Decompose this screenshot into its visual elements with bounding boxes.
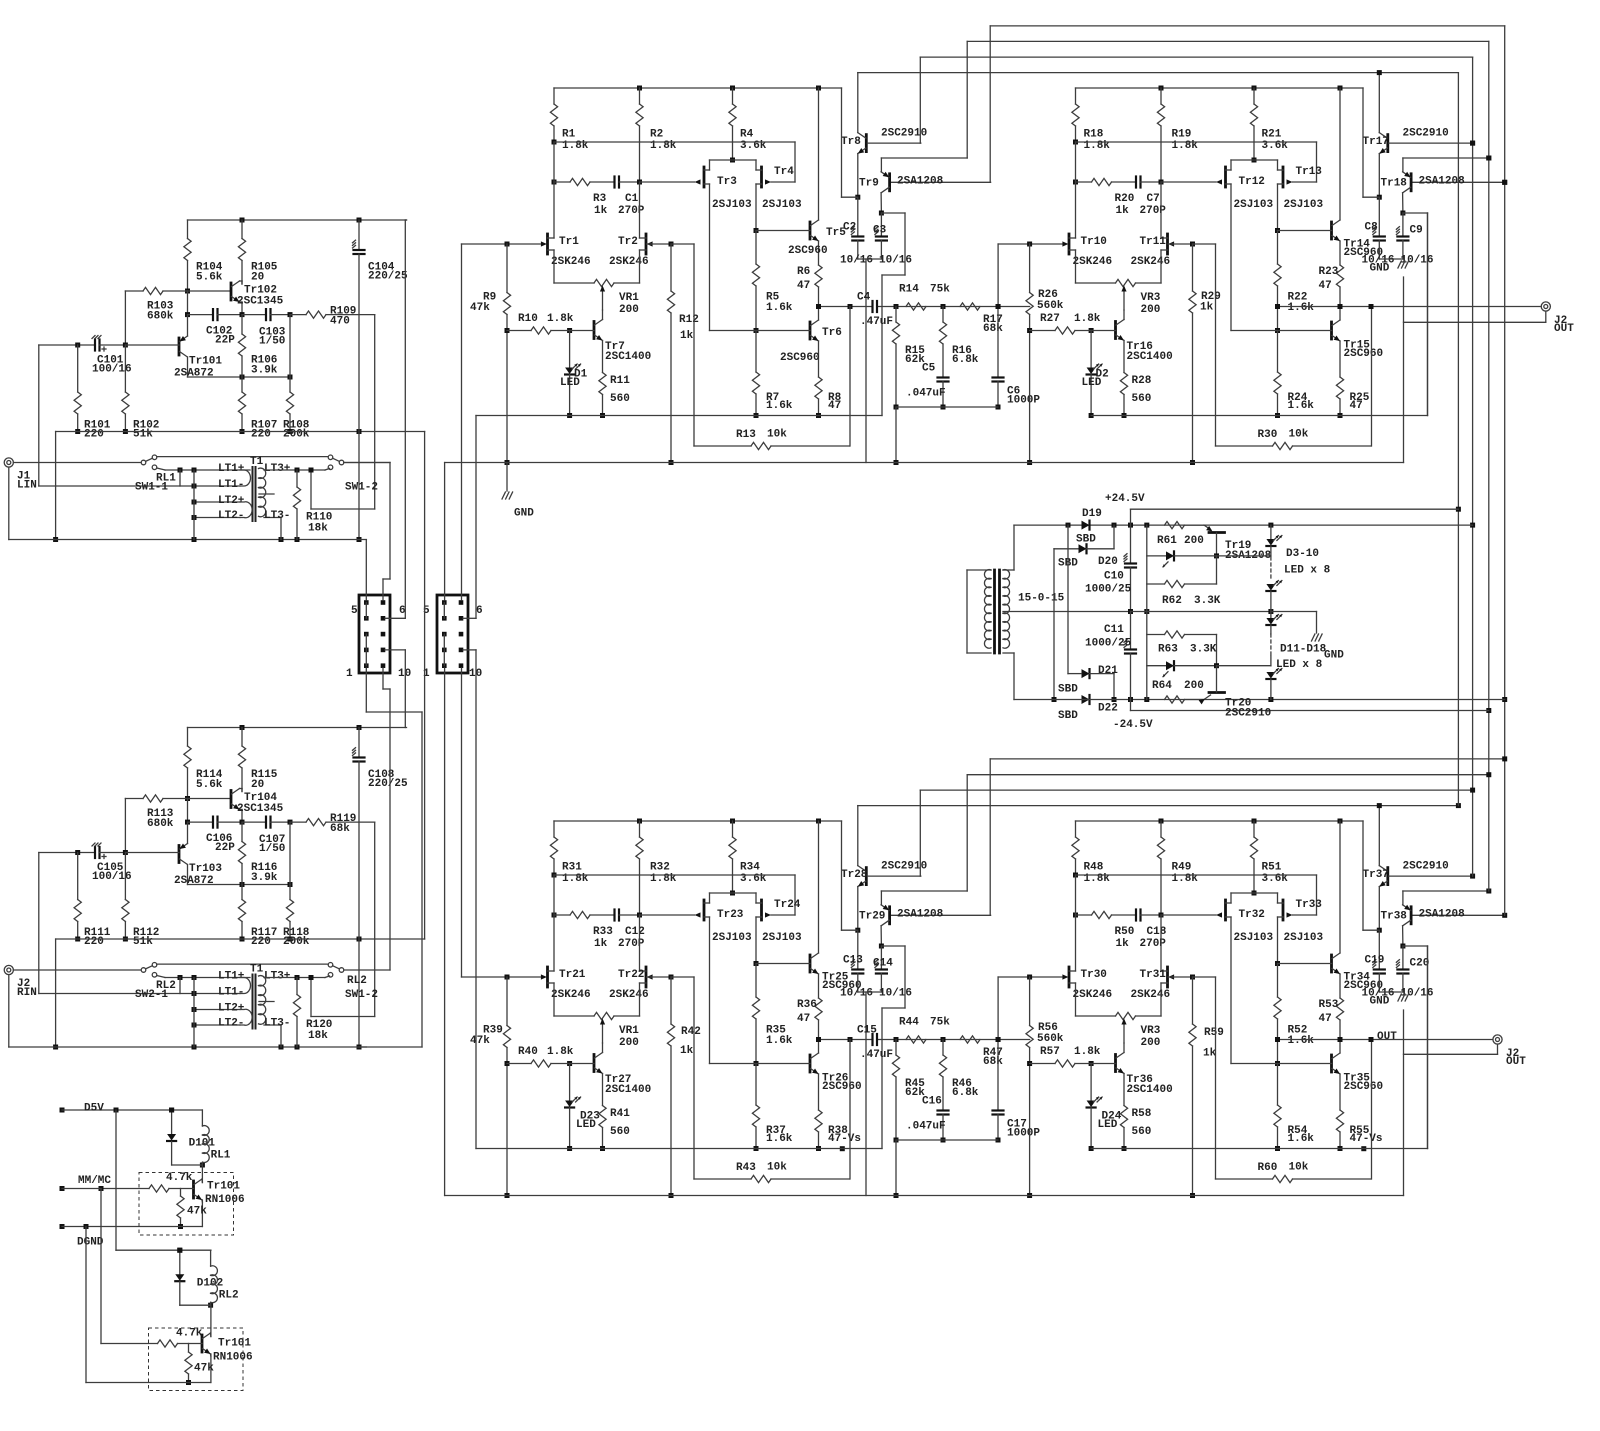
svg-text:1.6k: 1.6k xyxy=(1288,400,1315,412)
wire cellB cap stub xyxy=(1379,258,1403,260)
svg-text:1k: 1k xyxy=(594,938,608,950)
svg-text:1.6k: 1.6k xyxy=(766,302,793,314)
resistor R112 xyxy=(122,853,160,948)
resistor R60 xyxy=(1193,977,1372,1183)
svg-text:270P: 270P xyxy=(618,205,645,217)
svg-text:VR3: VR3 xyxy=(1141,292,1161,304)
transistor Tr102 xyxy=(188,281,284,315)
LED chain D3-10 xyxy=(1266,525,1330,611)
svg-text:R49: R49 xyxy=(1172,861,1192,873)
wire cellC input gate line xyxy=(462,975,541,980)
svg-text:2SJ103: 2SJ103 xyxy=(762,932,802,944)
transistor Tr5 xyxy=(756,88,846,265)
svg-text:MM/MC: MM/MC xyxy=(78,1175,111,1187)
svg-text:2SA1208: 2SA1208 xyxy=(897,908,944,920)
diode Tr19 bias xyxy=(1147,551,1217,567)
svg-text:22P: 22P xyxy=(215,334,235,346)
resistor R17 xyxy=(960,303,1003,335)
svg-text:Tr101: Tr101 xyxy=(189,355,222,367)
svg-text:3.9k: 3.9k xyxy=(251,872,278,884)
svg-text:OUT: OUT xyxy=(1506,1056,1526,1068)
capacitor C108 xyxy=(353,728,409,1050)
relay coil RL1 xyxy=(172,1110,231,1165)
wire cellB gate feed xyxy=(996,242,1062,310)
wire Tr20 base xyxy=(1217,665,1271,667)
svg-text:Tr3: Tr3 xyxy=(717,176,737,188)
dashed box upper xyxy=(139,1173,234,1236)
svg-text:2SC2910: 2SC2910 xyxy=(1403,127,1449,139)
svg-text:200: 200 xyxy=(1141,1037,1161,1049)
wire phono R short bars xyxy=(180,978,194,1048)
transistor Tr30 xyxy=(1062,967,1112,1001)
wire phono L sw upper xyxy=(157,456,328,458)
svg-text:2SC960: 2SC960 xyxy=(788,245,828,257)
capacitor C105 xyxy=(92,843,179,883)
wire cellC collector jog xyxy=(881,946,905,1149)
svg-text:220: 220 xyxy=(251,936,271,948)
svg-text:1.8k: 1.8k xyxy=(547,313,574,325)
wire output line xyxy=(1275,304,1541,309)
LED D24 xyxy=(1087,1061,1122,1151)
LED D1 xyxy=(560,328,588,418)
svg-text:2SK246: 2SK246 xyxy=(1073,989,1113,1001)
svg-text:2SC960: 2SC960 xyxy=(822,1081,862,1093)
svg-text:C12: C12 xyxy=(625,926,645,938)
svg-text:R58: R58 xyxy=(1132,1108,1152,1120)
svg-text:R21: R21 xyxy=(1262,128,1282,140)
node -Vs flag right xyxy=(1361,1146,1366,1151)
potentiometer VR3 xyxy=(1116,279,1161,315)
svg-text:47k: 47k xyxy=(470,1035,490,1047)
svg-text:R10: R10 xyxy=(518,313,538,325)
svg-text:2SJ103: 2SJ103 xyxy=(712,199,752,211)
wire cellD Tr2 drain col xyxy=(1160,915,1162,971)
resistor R53 xyxy=(1319,998,1344,1053)
svg-text:Tr2: Tr2 xyxy=(618,236,638,248)
resistor R46 xyxy=(939,1040,978,1111)
svg-text:R12: R12 xyxy=(679,314,699,326)
switch SW2-1 xyxy=(135,963,176,1001)
svg-text:C14: C14 xyxy=(873,957,893,969)
resistor R12 xyxy=(667,242,698,466)
svg-text:5.6k: 5.6k xyxy=(196,271,223,283)
svg-text:C5: C5 xyxy=(922,362,936,374)
capacitor C19 xyxy=(1362,930,1395,999)
resistor R51 xyxy=(1250,821,1288,896)
resistor R43 xyxy=(671,977,850,1183)
svg-text:270P: 270P xyxy=(1140,938,1167,950)
transistor Tr33 xyxy=(1275,893,1324,966)
wire CN2 pin2 right xyxy=(463,416,476,619)
svg-text:RN1006: RN1006 xyxy=(205,1194,245,1206)
wire phono R input xyxy=(13,969,141,971)
wire CN2 pin5R down xyxy=(461,668,463,977)
transistor Tr12 xyxy=(1216,160,1274,331)
wire cellC Tr1 drain col xyxy=(553,875,555,971)
wire lower emitter rail xyxy=(86,1227,211,1383)
svg-text:Tr17: Tr17 xyxy=(1363,136,1389,148)
svg-text:R20: R20 xyxy=(1115,193,1135,205)
wire bundle B3 top xyxy=(920,57,1472,143)
wire cellD sources xyxy=(1076,983,1162,1016)
svg-text:200: 200 xyxy=(619,304,639,316)
wire cellB mirror top xyxy=(1231,159,1278,161)
svg-text:LED x 8: LED x 8 xyxy=(1276,659,1323,671)
svg-text:Tr10: Tr10 xyxy=(1081,236,1107,248)
svg-text:LT3-: LT3- xyxy=(264,510,290,522)
wire CN1 pin5L down xyxy=(366,668,422,712)
wire rail drop x424 xyxy=(424,432,426,940)
resistor R55 xyxy=(1336,1110,1382,1151)
resistor R105 xyxy=(238,220,277,284)
svg-text:D21: D21 xyxy=(1098,665,1118,677)
transistor Tr8 xyxy=(841,73,927,200)
svg-text:220: 220 xyxy=(84,428,104,440)
capacitor C103 xyxy=(242,309,293,347)
resistor 47k (upper) xyxy=(177,1189,207,1230)
wire phono R sw2 common xyxy=(344,969,390,971)
capacitor C10 xyxy=(1085,525,1136,614)
resistor R13 xyxy=(671,244,850,450)
svg-text:C1: C1 xyxy=(625,193,639,205)
svg-text:10k: 10k xyxy=(1289,428,1309,440)
connector CN2 xyxy=(423,595,483,680)
resistor R37 xyxy=(752,1064,792,1152)
svg-text:D101: D101 xyxy=(189,1137,216,1149)
svg-text:R43: R43 xyxy=(736,1162,756,1174)
svg-text:220: 220 xyxy=(251,428,271,440)
LED D2 xyxy=(1082,328,1109,418)
svg-text:200: 200 xyxy=(1184,535,1204,547)
wire cellD mirror top xyxy=(1231,892,1278,894)
resistor R9 xyxy=(470,244,511,465)
transistor Tr22 xyxy=(609,967,671,1001)
wire coupleB filter bottom xyxy=(894,1140,999,1198)
svg-text:OUT: OUT xyxy=(1554,323,1574,335)
svg-text:47: 47 xyxy=(1319,1013,1332,1025)
svg-text:R32: R32 xyxy=(650,861,670,873)
svg-text:VR3: VR3 xyxy=(1141,1025,1161,1037)
svg-text:2SC960: 2SC960 xyxy=(1344,1081,1384,1093)
svg-text:R42: R42 xyxy=(681,1026,701,1038)
svg-text:Tr23: Tr23 xyxy=(717,909,744,921)
transistor Tr26 xyxy=(710,1053,862,1110)
wire phono L lower rail xyxy=(53,429,425,542)
svg-text:200: 200 xyxy=(619,1037,639,1049)
resistor R49 xyxy=(1157,821,1198,915)
svg-text:10: 10 xyxy=(398,668,411,680)
wire cellC Tr8 base xyxy=(867,875,921,877)
wire cellC Tr2 drain col xyxy=(639,915,641,971)
resistor R28 xyxy=(1120,373,1151,419)
svg-text:1k: 1k xyxy=(1200,301,1214,313)
svg-text:2SC1400: 2SC1400 xyxy=(605,1084,651,1096)
svg-text:Tr30: Tr30 xyxy=(1081,969,1107,981)
wire cellA Tr8 base xyxy=(867,142,921,144)
wire LT3- phono R xyxy=(264,1017,290,1047)
transistor Tr27 xyxy=(594,1043,651,1106)
wire phono L input xyxy=(13,462,141,464)
wire rail drop x422 xyxy=(359,712,422,1047)
svg-text:Tr22: Tr22 xyxy=(618,969,644,981)
transistor Tr3 xyxy=(695,160,753,331)
svg-text:LT3+: LT3+ xyxy=(264,463,291,475)
svg-text:5.6k: 5.6k xyxy=(196,779,223,791)
wire LT1+ line phono L xyxy=(178,456,291,475)
transformer T2 core xyxy=(995,570,1065,653)
transistor Tr38 xyxy=(1381,905,1466,949)
transistor Tr25 xyxy=(756,821,862,998)
svg-text:C9: C9 xyxy=(1410,224,1423,236)
transistor Tr28 xyxy=(841,806,927,933)
svg-text:R27: R27 xyxy=(1040,313,1060,325)
wire DGND line xyxy=(60,1224,203,1248)
svg-text:Tr1: Tr1 xyxy=(559,236,579,248)
svg-text:R31: R31 xyxy=(562,861,582,873)
wire phono L short bars xyxy=(180,470,194,540)
resistor R54 xyxy=(1274,1064,1314,1152)
wire cellA cap drop xyxy=(865,259,867,463)
wire cellD Tr1 drain col xyxy=(1075,875,1077,971)
capacitor C104 xyxy=(353,220,409,542)
svg-text:200: 200 xyxy=(1184,680,1204,692)
wire cellA Tr9 base xyxy=(890,181,991,183)
resistor R120 xyxy=(293,978,332,1048)
svg-text:6.8k: 6.8k xyxy=(952,1087,979,1099)
resistor R16 xyxy=(939,307,978,378)
connector CN1 xyxy=(346,595,411,680)
svg-text:LT3+: LT3+ xyxy=(264,970,291,982)
resistor R64 xyxy=(1152,680,1204,703)
resistor R62 xyxy=(1147,580,1221,606)
wire bias column xyxy=(1146,525,1148,699)
svg-text:R13: R13 xyxy=(736,429,756,441)
wire cellC mirror top xyxy=(710,892,757,894)
svg-text:Tr32: Tr32 xyxy=(1239,909,1265,921)
svg-text:R11: R11 xyxy=(610,375,630,387)
transistor Tr29 xyxy=(859,905,944,949)
resistor R101 xyxy=(74,345,111,440)
svg-text:51k: 51k xyxy=(133,428,153,440)
svg-text:68k: 68k xyxy=(983,1056,1003,1068)
resistor R116 xyxy=(238,822,277,884)
wire cellD Tr8 base xyxy=(1389,874,1475,879)
wire cellA Tr9 emitter feed xyxy=(881,158,967,172)
svg-text:D11-D18: D11-D18 xyxy=(1280,643,1327,655)
potentiometer VR1 xyxy=(594,1012,639,1048)
wire phono R feedback drop xyxy=(311,822,375,1016)
resistor R42 xyxy=(667,975,700,1199)
svg-text:15-0-15: 15-0-15 xyxy=(1018,592,1065,604)
transistor Tr11 xyxy=(1131,234,1193,268)
wire cellB Tr8 base xyxy=(1389,141,1475,146)
svg-text:Tr11: Tr11 xyxy=(1140,236,1167,248)
wire CN2 pin5L down xyxy=(444,668,446,1196)
svg-text:R48: R48 xyxy=(1084,861,1104,873)
ground cellD xyxy=(1370,994,1409,1007)
svg-text:Tr9: Tr9 xyxy=(859,177,879,189)
resistor R61 xyxy=(1157,522,1204,547)
svg-text:LT2+: LT2+ xyxy=(218,1002,245,1014)
transistor Tr17 xyxy=(1363,73,1449,200)
svg-text:R14: R14 xyxy=(899,283,919,295)
svg-text:2SJ103: 2SJ103 xyxy=(712,932,752,944)
resistor R103 xyxy=(125,287,187,345)
resistor R115 xyxy=(238,728,277,792)
wire J2 return (bottom) xyxy=(1404,1044,1498,1054)
wire phono R sw lower xyxy=(157,976,180,978)
wire CN2 pin4 right xyxy=(463,650,476,1149)
transistor Tr24 xyxy=(754,893,803,966)
svg-text:1000P: 1000P xyxy=(1007,1127,1040,1139)
svg-text:R61: R61 xyxy=(1157,535,1177,547)
svg-text:R64: R64 xyxy=(1152,680,1172,692)
transistor Tr18 xyxy=(1381,172,1466,216)
wire cellB collector jog xyxy=(1403,213,1428,416)
resistor R21 xyxy=(1250,88,1288,163)
svg-text:10k: 10k xyxy=(767,1161,787,1173)
capacitor C7 xyxy=(1136,177,1216,217)
svg-text:47: 47 xyxy=(828,400,841,412)
wire cellC Tr9 emitter feed xyxy=(881,891,967,905)
wire cellA cap stub xyxy=(858,258,882,260)
wire CN2 pin1L up xyxy=(444,463,446,601)
svg-text:18k: 18k xyxy=(308,522,328,534)
wire CN1 pin2 right xyxy=(385,220,407,618)
svg-text:SW1-2: SW1-2 xyxy=(345,989,378,1001)
svg-text:VR1: VR1 xyxy=(619,292,639,304)
transistor Tr37 xyxy=(1363,806,1449,933)
svg-text:R53: R53 xyxy=(1319,999,1339,1011)
capacitor C3 xyxy=(873,213,912,266)
transistor Tr23 xyxy=(695,893,753,1064)
svg-text:560: 560 xyxy=(610,1126,630,1138)
svg-text:2SK246: 2SK246 xyxy=(551,256,591,268)
resistor R58 xyxy=(1120,1106,1151,1152)
capacitor C16 xyxy=(906,1095,949,1142)
resistor R15 xyxy=(892,307,925,410)
wire RL1 to Tr xyxy=(201,1165,203,1183)
transistor Tr13 xyxy=(1275,160,1324,233)
svg-text:200: 200 xyxy=(1141,304,1161,316)
resistor R44 xyxy=(899,1016,950,1043)
resistor R118 xyxy=(283,885,310,948)
wire cellB Tr2 drain col xyxy=(1160,182,1162,238)
resistor R31 xyxy=(550,821,588,885)
svg-text:560k: 560k xyxy=(1037,300,1064,312)
wire phono L jack ground xyxy=(9,467,367,542)
resistor R27 xyxy=(1030,313,1116,334)
wire right riser B xyxy=(1470,57,1475,876)
svg-text:RN1006: RN1006 xyxy=(213,1351,253,1363)
wire phono R base line xyxy=(39,850,194,994)
LED chain D11-D18 xyxy=(1266,612,1326,700)
wire D5V drop to RL2 xyxy=(116,1110,211,1253)
diode D20 SBD xyxy=(1052,525,1118,702)
capacitor C4 xyxy=(857,291,893,328)
dashed box lower xyxy=(149,1328,244,1391)
svg-text:RL2: RL2 xyxy=(347,975,367,987)
svg-text:2SC1400: 2SC1400 xyxy=(1127,1084,1173,1096)
svg-text:22P: 22P xyxy=(215,842,235,854)
transistor Tr14 xyxy=(1278,88,1384,265)
svg-text:2SJ103: 2SJ103 xyxy=(1234,199,1274,211)
wire cellC cascode node xyxy=(554,875,795,915)
resistor R47 xyxy=(960,1036,1003,1068)
transistor Tr31 xyxy=(1131,967,1193,1001)
svg-text:VR1: VR1 xyxy=(619,1025,639,1037)
transistor Tr2 xyxy=(609,234,671,268)
svg-text:.047uF: .047uF xyxy=(906,387,946,399)
resistor R19 xyxy=(1157,88,1198,182)
svg-text:C16: C16 xyxy=(922,1095,942,1107)
wire coupleT filter bottom xyxy=(894,407,999,465)
wire cellD collector jog xyxy=(1403,946,1428,1149)
svg-text:C4: C4 xyxy=(857,291,871,303)
svg-text:1k: 1k xyxy=(1203,1047,1217,1059)
svg-text:2SJ103: 2SJ103 xyxy=(1234,932,1274,944)
transistor Tr101 xyxy=(174,315,222,380)
wire cellD Tr9 emitter feed xyxy=(1403,889,1491,905)
wire cellD cap stub xyxy=(1379,991,1403,993)
svg-text:OUT: OUT xyxy=(1377,1031,1397,1043)
svg-text:C11: C11 xyxy=(1104,624,1124,636)
transformer phono L T1 xyxy=(240,467,274,521)
capacitor C5 xyxy=(906,362,949,409)
transistor Tr104 xyxy=(188,789,284,823)
wire cellA sources xyxy=(554,250,640,283)
resistor R48 xyxy=(1072,821,1110,885)
transistor Tr101 RN1006 (upper) xyxy=(194,1179,245,1227)
svg-text:R41: R41 xyxy=(610,1108,630,1120)
svg-text:GND: GND xyxy=(1370,262,1390,274)
wire phono R top rail xyxy=(188,725,407,730)
capacitor C20 xyxy=(1396,946,1433,999)
svg-text:75k: 75k xyxy=(930,283,950,295)
svg-text:75k: 75k xyxy=(930,1016,950,1028)
wire phono L base node xyxy=(185,291,190,317)
svg-text:2SK246: 2SK246 xyxy=(609,256,649,268)
svg-text:2SJ103: 2SJ103 xyxy=(1284,199,1324,211)
svg-text:Tr28: Tr28 xyxy=(841,869,868,881)
capacitor C13 xyxy=(840,930,873,999)
transistor Tr34 xyxy=(1278,821,1384,998)
resistor R3 xyxy=(552,178,615,216)
resistor R10 xyxy=(507,313,594,334)
svg-text:47k: 47k xyxy=(194,1362,214,1374)
resistor R6 xyxy=(797,265,822,320)
svg-text:1k: 1k xyxy=(680,1045,694,1057)
wire CN2 pin1R up xyxy=(461,244,463,600)
wire phono R jack ground xyxy=(9,975,367,1050)
svg-text:C18: C18 xyxy=(1147,926,1167,938)
svg-text:D102: D102 xyxy=(197,1278,223,1290)
svg-text:6.8k: 6.8k xyxy=(952,354,979,366)
svg-text:SBD: SBD xyxy=(1058,683,1078,695)
svg-text:4.7k: 4.7k xyxy=(176,1327,203,1339)
svg-text:.47uF: .47uF xyxy=(860,316,893,328)
svg-text:R57: R57 xyxy=(1040,1046,1060,1058)
resistor R52 xyxy=(1274,964,1314,1067)
resistor R11 xyxy=(599,373,630,419)
wire Tr19 base xyxy=(1217,555,1271,557)
wire right riser D xyxy=(1502,26,1507,915)
svg-text:R3: R3 xyxy=(593,193,607,205)
wire cellC cap stub xyxy=(858,991,882,993)
capacitor C2 xyxy=(840,197,873,266)
svg-text:1.6k: 1.6k xyxy=(1288,1035,1315,1047)
diode D21 SBD xyxy=(1058,525,1118,702)
